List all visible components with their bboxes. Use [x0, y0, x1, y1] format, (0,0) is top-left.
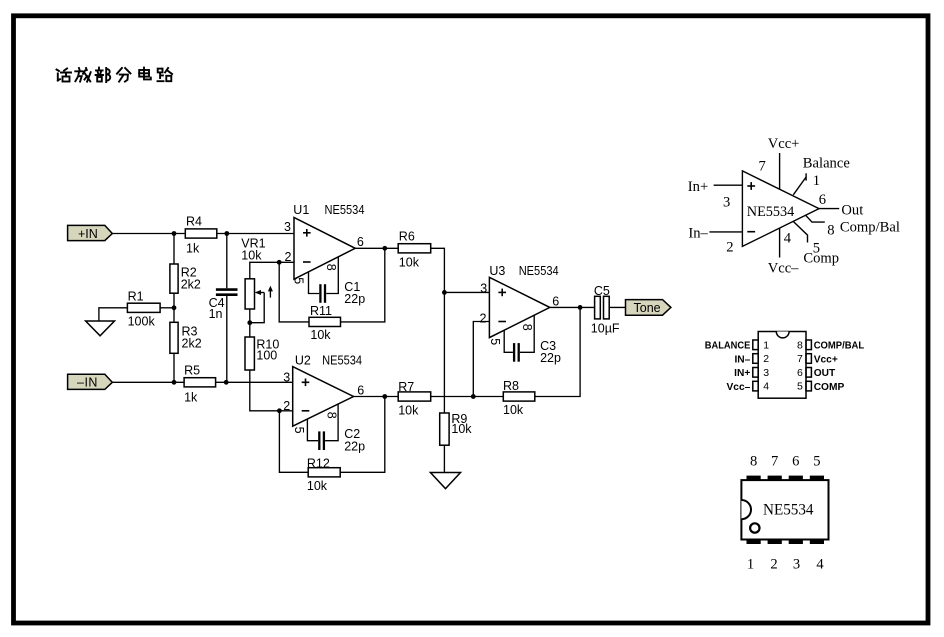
capacitor C4 [216, 290, 238, 295]
DIP-8 package top view [741, 476, 828, 544]
wire U2 pin5 stub [307, 419, 318, 441]
package pin1 dot [750, 523, 759, 532]
node U3 pin2 junction [471, 394, 476, 399]
svg-text:3: 3 [793, 556, 800, 572]
svg-text:10k: 10k [451, 422, 472, 436]
wire U1 output [355, 247, 398, 249]
wire C4 top [226, 234, 228, 289]
node R1 junction [172, 305, 177, 310]
svg-text:2: 2 [283, 399, 290, 413]
svg-text:Vcc+: Vcc+ [768, 136, 800, 152]
svg-text:2: 2 [285, 250, 292, 264]
svg-text:5: 5 [797, 381, 803, 393]
svg-text:1k: 1k [186, 241, 200, 255]
svg-text:10k: 10k [310, 328, 331, 342]
svg-text:6: 6 [792, 454, 799, 470]
svg-text:3: 3 [284, 220, 291, 234]
wire Vcc+ pin7 [779, 153, 781, 189]
wire R1 to ground [99, 308, 128, 321]
svg-text:10k: 10k [398, 404, 419, 418]
title 话放部分电路 [57, 68, 173, 82]
svg-text:NE5534: NE5534 [519, 264, 559, 278]
node -IN/R3 junction [172, 380, 177, 385]
wire U2 pin8 stub [325, 404, 338, 441]
resistor R7 [398, 392, 431, 401]
svg-text:22p: 22p [540, 351, 561, 365]
svg-text:2: 2 [726, 239, 733, 255]
svg-text:R6: R6 [399, 229, 415, 243]
svg-text:100k: 100k [128, 314, 156, 328]
resistor R2 [170, 264, 178, 293]
wire R6 to bus [431, 248, 445, 413]
DIP-8 pinout table [753, 332, 812, 399]
svg-text:Comp: Comp [803, 251, 839, 267]
wire U3 pin8 stub [520, 315, 534, 352]
svg-text:NE5534: NE5534 [747, 204, 795, 220]
svg-text:IN–: IN– [734, 354, 750, 365]
capacitor C1 [320, 284, 325, 303]
wire C4 bottom [226, 296, 228, 382]
svg-text:6: 6 [552, 294, 559, 308]
resistor R4 [185, 229, 217, 238]
wire U2 feedback right [340, 397, 385, 473]
svg-text:7: 7 [771, 454, 778, 470]
svg-text:100: 100 [256, 349, 277, 363]
svg-text:6: 6 [819, 192, 826, 208]
svg-text:2k2: 2k2 [181, 278, 201, 292]
svg-text:+IN: +IN [78, 227, 98, 241]
svg-text:R12: R12 [307, 456, 330, 470]
svg-text:8: 8 [324, 264, 338, 271]
svg-text:4: 4 [763, 381, 769, 393]
resistor R5 [184, 378, 216, 387]
svg-text:Out: Out [841, 202, 863, 218]
node U1 output junction [382, 246, 387, 251]
wire U1 feedback left [279, 262, 309, 322]
svg-text:NE5534: NE5534 [325, 203, 365, 217]
svg-text:5: 5 [292, 427, 306, 434]
svg-text:7: 7 [759, 158, 766, 174]
node U2 pin2 junction [277, 408, 282, 413]
node R5/C4 junction [224, 380, 229, 385]
svg-text:1k: 1k [184, 391, 198, 405]
svg-text:5: 5 [813, 454, 820, 470]
capacitor C2 [319, 431, 324, 450]
svg-text:8: 8 [797, 339, 803, 351]
svg-text:22p: 22p [344, 439, 365, 453]
wire U2 output [354, 396, 399, 398]
wire R5 to U2 pin3 [216, 381, 293, 383]
DIP pin stubs right [806, 340, 811, 391]
wire Vcc- pin4 [779, 228, 781, 257]
VR1 up-arrow mark [268, 286, 273, 298]
wire In- pin2 [709, 231, 742, 233]
VR1 wiper arrow [250, 290, 264, 323]
node R4/C4 junction [224, 231, 229, 236]
wire U1 pin8 stub [326, 257, 338, 294]
svg-text:COMP: COMP [814, 382, 845, 393]
svg-text:3: 3 [723, 195, 730, 211]
resistor R10 [245, 337, 254, 370]
svg-text:U3: U3 [489, 264, 505, 278]
svg-text:Balance: Balance [803, 156, 850, 172]
svg-text:Vcc–: Vcc– [768, 261, 799, 277]
package pins top [747, 476, 825, 481]
svg-text:NE5534: NE5534 [322, 353, 362, 367]
node U3 pin3 junction [442, 290, 447, 295]
wire Comp/Bal pin8 [806, 216, 825, 222]
wire R8 to output node [535, 307, 580, 396]
wire +IN to R4 [112, 233, 185, 235]
op-amp U1 [294, 218, 355, 280]
package notch [741, 500, 751, 519]
wire R9 to ground [443, 445, 445, 472]
svg-text:–IN: –IN [77, 376, 98, 390]
svg-text:Comp/Bal: Comp/Bal [840, 220, 900, 236]
symbol minus sign [747, 231, 755, 233]
svg-text:10µF: 10µF [591, 322, 620, 336]
wire bus to U3 pin3 [444, 291, 489, 293]
svg-text:U2: U2 [295, 353, 311, 367]
svg-text:R7: R7 [398, 380, 414, 394]
svg-text:C5: C5 [594, 284, 610, 298]
connector Tone [626, 300, 671, 316]
wire R3 to -IN row [173, 353, 175, 382]
svg-text:1: 1 [813, 173, 820, 189]
resistor R1 [127, 303, 160, 312]
resistor R9 [440, 413, 449, 445]
svg-text:2: 2 [763, 353, 769, 365]
svg-text:IN+: IN+ [734, 368, 750, 379]
potentiometer VR1 [245, 279, 254, 309]
package pins bottom [747, 539, 825, 544]
svg-text:NE5534: NE5534 [763, 502, 814, 519]
node VR1/R10 junction [247, 320, 252, 325]
svg-text:6: 6 [357, 235, 364, 249]
svg-text:3: 3 [283, 370, 290, 384]
svg-text:8: 8 [750, 454, 757, 470]
svg-text:R8: R8 [503, 379, 519, 393]
wire R4 to U1 pin3 [217, 233, 294, 235]
wire U1 feedback right [341, 248, 385, 322]
wire R2 vertical bus top [173, 234, 175, 265]
svg-text:3: 3 [763, 367, 769, 379]
wire Comp pin5 [793, 221, 807, 242]
svg-text:OUT: OUT [814, 368, 836, 379]
node output/C5 junction [578, 305, 583, 310]
wire C5 to Tone [609, 306, 625, 308]
wire U2 feedback left [279, 411, 308, 473]
svg-text:10k: 10k [503, 403, 524, 417]
svg-text:1: 1 [747, 556, 754, 572]
wire R1 right [160, 307, 174, 309]
op-amp U2 [293, 367, 354, 427]
wire U1 pin5 stub [309, 272, 320, 294]
wire R2 to R3 [173, 293, 175, 322]
svg-text:3: 3 [480, 281, 487, 295]
svg-text:2: 2 [770, 556, 777, 572]
wire In+ pin3 [714, 184, 743, 186]
svg-text:2k2: 2k2 [182, 337, 202, 351]
svg-text:Tone: Tone [634, 301, 661, 315]
svg-text:R1: R1 [128, 290, 144, 304]
svg-text:5: 5 [292, 277, 306, 284]
svg-text:7: 7 [797, 353, 803, 365]
svg-text:10k: 10k [307, 479, 328, 493]
svg-text:In+: In+ [688, 179, 708, 195]
svg-text:5: 5 [488, 338, 502, 345]
wire R10 to U2 pin2 [250, 370, 293, 411]
svg-text:1n: 1n [209, 307, 223, 321]
svg-text:U1: U1 [293, 203, 309, 217]
svg-text:R5: R5 [184, 364, 200, 378]
wire R7 to R8 [431, 396, 504, 398]
svg-text:BALANCE: BALANCE [705, 341, 751, 352]
svg-text:Vcc+: Vcc+ [814, 354, 838, 365]
svg-text:8: 8 [325, 412, 339, 419]
connector -IN [68, 374, 113, 389]
svg-text:R4: R4 [186, 215, 202, 229]
svg-text:In–: In– [688, 225, 708, 241]
svg-text:R11: R11 [310, 304, 332, 318]
symbol plus sign [747, 182, 755, 190]
wire VR1 bottom [249, 309, 251, 337]
svg-text:10k: 10k [399, 256, 420, 270]
wire VR1 top to U1 pin2 [250, 262, 294, 279]
wire -IN to R5 [112, 381, 184, 383]
capacitor C3 [514, 343, 519, 362]
svg-text:2: 2 [480, 312, 487, 326]
svg-text:Vcc–: Vcc– [727, 382, 751, 393]
svg-text:4: 4 [784, 231, 792, 247]
op-amp symbol NE5534 (pin diagram) [742, 171, 819, 247]
svg-text:22p: 22p [344, 292, 365, 306]
svg-text:4: 4 [816, 556, 824, 572]
connector +IN [68, 225, 113, 240]
wire U3 output [550, 306, 595, 308]
ground (R1) [86, 321, 115, 336]
wire U3 pin2 [473, 322, 489, 397]
resistor R8 [503, 392, 535, 401]
resistor R3 [170, 322, 178, 353]
DIP notch top [776, 332, 789, 338]
node U2 output junction [382, 394, 387, 399]
node U1 pin2 junction [277, 260, 282, 265]
DIP pin stubs left [753, 340, 758, 391]
svg-text:8: 8 [520, 324, 534, 331]
node +IN/R2 junction [172, 231, 177, 236]
svg-text:1: 1 [763, 339, 769, 351]
svg-text:8: 8 [827, 222, 834, 238]
resistor R6 [398, 244, 431, 253]
svg-text:6: 6 [357, 383, 364, 397]
wire Balance pin1 [793, 173, 806, 195]
svg-text:10k: 10k [241, 248, 262, 262]
op-amp U3 [489, 277, 549, 337]
wire U3 pin5 stub [504, 330, 513, 352]
resistor R12 [308, 468, 340, 477]
svg-text:COMP/BAL: COMP/BAL [814, 341, 865, 352]
svg-text:6: 6 [797, 367, 803, 379]
ground (R9) [430, 473, 460, 489]
capacitor C5 [595, 296, 610, 319]
resistor R11 [309, 317, 341, 326]
wire Out pin6 [819, 208, 839, 210]
